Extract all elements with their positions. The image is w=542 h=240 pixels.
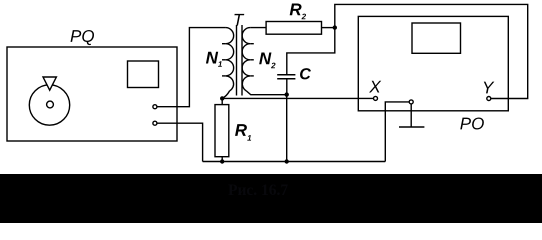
- lower output terminal: [153, 121, 157, 125]
- svg-text:PO: PO: [460, 114, 485, 133]
- wire capacitor to node C: [286, 79, 288, 95]
- node D junction dot (R1 bottom): [220, 159, 224, 163]
- generator dial knob: [29, 77, 69, 125]
- upper output terminal: [153, 105, 157, 109]
- wire N2 top to R2: [250, 27, 266, 29]
- generator PQ box: [7, 47, 177, 141]
- wire N1 bottom to node A: [222, 91, 229, 99]
- node A junction dot: [220, 96, 224, 100]
- node B junction dot: [333, 25, 337, 29]
- transformer core: [237, 25, 243, 96]
- wire node A to X input: [222, 97, 373, 99]
- wire R2 to node B: [322, 27, 335, 29]
- svg-text:X: X: [368, 78, 381, 97]
- wire upper output terminal to N1 top: [157, 28, 226, 107]
- wire node B to Y input: [335, 4, 528, 98]
- wire node C down to bottom rail: [286, 95, 288, 162]
- winding N1: [222, 28, 234, 91]
- ground terminal: [409, 100, 413, 104]
- caption bar: [0, 174, 542, 223]
- Y input terminal: [487, 97, 491, 101]
- svg-text:PQ: PQ: [70, 27, 95, 46]
- svg-text:T: T: [233, 11, 245, 30]
- svg-text:Рис. 16.7: Рис. 16.7: [228, 182, 288, 199]
- ground symbol: [399, 104, 424, 127]
- capacitor C: [277, 75, 295, 79]
- X input terminal: [374, 96, 378, 100]
- generator display rectangle: [128, 61, 159, 88]
- wire N2 bottom to node C: [246, 91, 286, 95]
- oscilloscope PO box: [358, 16, 508, 110]
- wire node B down to capacitor: [287, 28, 335, 75]
- oscilloscope screen: [412, 23, 461, 53]
- resistor R2: [266, 22, 321, 35]
- winding N2: [242, 28, 254, 91]
- resistor R1: [215, 98, 229, 161]
- wire lower output terminal to bottom rail: [157, 123, 203, 161]
- svg-text:Y: Y: [482, 78, 495, 97]
- svg-text:C: C: [299, 66, 311, 83]
- bottom rail wire: [203, 161, 386, 163]
- node C junction dot: [285, 92, 289, 96]
- wire rail up to scope ground terminal: [385, 102, 409, 162]
- node E junction dot (rail): [285, 159, 289, 163]
